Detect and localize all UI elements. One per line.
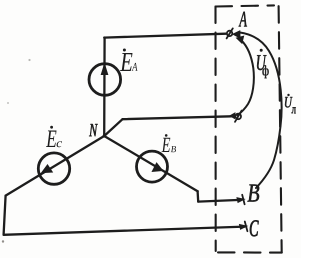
node N (junction) — [103, 134, 106, 137]
wire: top horizontal to terminal A — [104, 34, 226, 38]
U_l arc (line voltage, A to B) — [240, 33, 282, 189]
wire: phase B diagonal branch — [104, 136, 197, 191]
paper speck — [7, 102, 9, 104]
terminal B arrow with slash — [237, 195, 245, 205]
E_B arrow head (points down-right) — [152, 163, 162, 171]
U_f arrowhead at A end (points up-left) — [237, 36, 244, 43]
E_C arrow head (points down-left) — [42, 165, 53, 173]
label E_B — [162, 134, 177, 152]
dashed box top side — [216, 5, 275, 6]
wire: phase A vertical branch — [103, 38, 106, 137]
U_f arc (phase voltage, A to neutral) — [238, 41, 254, 116]
wire: bottom line to terminal C — [4, 227, 245, 235]
U_f arrowhead at neutral terminal (points left) — [230, 113, 235, 118]
U_l arrowhead at A end (points left) — [233, 31, 240, 38]
wire: middle horizontal to neutral terminal — [123, 116, 232, 119]
dashed box right side — [279, 6, 282, 252]
dashed box bottom side — [218, 251, 282, 253]
label A — [239, 12, 247, 27]
label U_l (line voltage) — [285, 94, 296, 114]
terminal A (slashed circle) — [227, 28, 233, 38]
label E_A — [120, 49, 138, 72]
paper speck — [2, 240, 4, 242]
label N — [89, 124, 98, 136]
neutral terminal (slashed circle) — [235, 111, 242, 122]
wire: left vertical segment of C branch — [4, 196, 6, 235]
paper speck — [28, 59, 30, 61]
wire: neutral middle diagonal from N — [104, 119, 122, 136]
EMF source E_A (circle) — [89, 64, 121, 96]
wire: phase C diagonal branch — [6, 136, 105, 196]
E_A arrow head (points up) — [101, 64, 107, 74]
label U_f (phase voltage) — [257, 49, 269, 78]
wire: B branch vertical step — [196, 191, 199, 201]
terminal C arrow with slash — [240, 222, 248, 232]
label B — [248, 185, 260, 202]
dashed box left side — [214, 7, 216, 252]
label E_C — [46, 126, 62, 147]
label C — [250, 220, 259, 236]
EMF source E_B (circle) — [137, 151, 168, 182]
EMF source E_C (circle) — [38, 153, 69, 184]
wire: B horizontal to terminal B — [198, 200, 240, 202]
